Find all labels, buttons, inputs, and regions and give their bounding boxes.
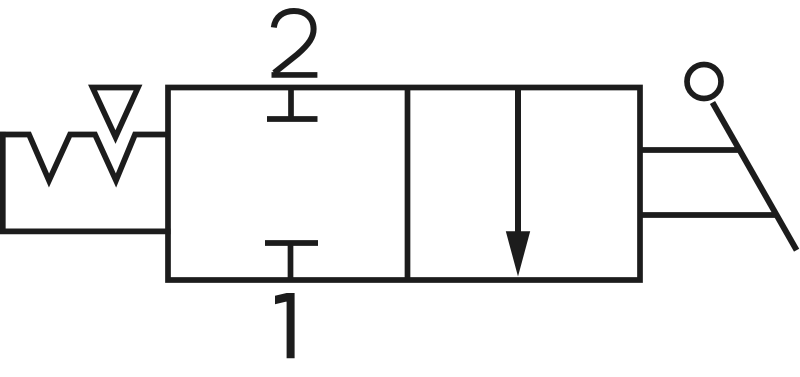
label 2 xyxy=(272,11,318,75)
lever knob circle xyxy=(687,65,721,99)
lever lower stub xyxy=(640,212,777,218)
flow arrow head xyxy=(506,231,530,276)
valve body divider line xyxy=(405,88,411,281)
vent triangle xyxy=(93,88,139,138)
spring zigzag xyxy=(0,135,168,181)
spring left vertical xyxy=(0,132,6,232)
port 1 closed-port bar xyxy=(265,240,318,246)
port 2 closed-port bar xyxy=(267,116,318,122)
label 1 xyxy=(275,293,295,358)
lever upper stub xyxy=(640,147,740,153)
flow arrow shaft xyxy=(515,88,521,241)
port 1 closed-port stub xyxy=(288,243,294,280)
lever diagonal arm xyxy=(713,103,797,251)
spring box bottom line xyxy=(0,229,171,235)
port 2 closed-port stub xyxy=(288,88,294,120)
valve body outer box xyxy=(168,88,640,281)
